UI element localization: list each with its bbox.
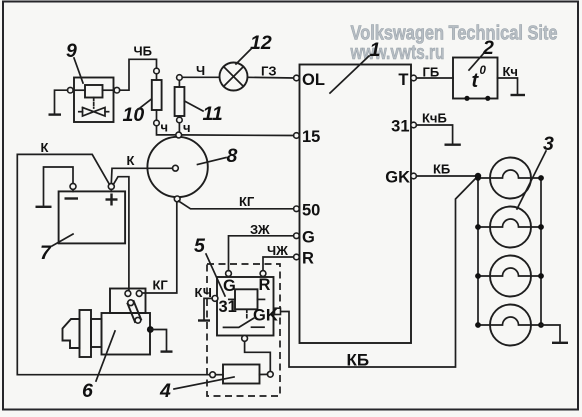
pin 50 — [294, 206, 300, 212]
starter neck — [91, 319, 102, 347]
svg-text:11: 11 — [203, 103, 223, 125]
svg-text:4: 4 — [159, 380, 171, 402]
relay terminal G — [226, 271, 232, 277]
ground (component 9) — [49, 113, 62, 115]
svg-text:5: 5 — [194, 235, 206, 257]
wire ZJ relay G to pin G — [229, 236, 294, 271]
svg-text:ГБ: ГБ — [423, 65, 440, 80]
svg-text:КГ: КГ — [239, 194, 255, 209]
wire relay bottom to resistor — [245, 341, 271, 371]
leader for 10 — [136, 99, 152, 111]
svg-text:КГ: КГ — [153, 278, 169, 293]
wire minus to ground — [44, 167, 74, 205]
wire ChJ relay R to pin R — [263, 257, 294, 271]
wire ChB 9 to fuse 10 — [120, 59, 157, 90]
svg-text:К: К — [41, 140, 49, 155]
dropping resistor 4 — [223, 365, 260, 384]
pin OL — [294, 75, 300, 81]
svg-text:Ч: Ч — [196, 63, 205, 78]
pin 31 — [411, 122, 417, 128]
glow plug P3 — [475, 256, 544, 297]
starter pinion — [63, 319, 80, 348]
minus terminal — [70, 183, 76, 189]
glow plug rail right — [540, 178, 542, 325]
control unit U1 — [300, 65, 412, 344]
svg-text:GK: GK — [253, 307, 278, 325]
svg-text:ч: ч — [183, 120, 191, 135]
ground (pin 31) — [445, 143, 461, 145]
wire fuse11 bottom to node — [178, 123, 180, 132]
leader for 11 — [185, 101, 204, 111]
pin T — [411, 75, 417, 81]
wire node to pin 15 — [179, 134, 294, 137]
battery 7 — [59, 191, 126, 243]
svg-text:ч: ч — [161, 120, 169, 135]
wire Ch fuse11 to lamp — [182, 76, 220, 78]
temperature sensor 2 — [453, 58, 498, 99]
relay bottom terminal — [242, 336, 248, 342]
wire plugs to ground — [541, 325, 560, 341]
wire KB junction down to bottom run — [281, 176, 479, 367]
relay coil — [235, 289, 258, 309]
fuse 10 — [152, 80, 162, 110]
inner rect of 9 — [85, 85, 103, 98]
svg-text:ГЗ: ГЗ — [261, 64, 277, 79]
wire KCh relay 31 to ground — [204, 298, 212, 319]
svg-text:КБ: КБ — [347, 351, 370, 370]
leader for 9 — [74, 58, 83, 83]
leader for 5 — [206, 254, 225, 296]
solenoid terminal left — [125, 291, 131, 297]
wire KB from pin GK to glow plug rail — [416, 175, 478, 177]
relay terminal R — [260, 271, 266, 277]
svg-text:ЧЖ: ЧЖ — [267, 243, 288, 258]
relay terminal 31 — [212, 296, 218, 302]
svg-text:КБ: КБ — [433, 162, 450, 177]
svg-text:G: G — [223, 277, 236, 295]
starter ground node — [147, 326, 154, 333]
lamp 12 — [220, 63, 248, 91]
svg-text:6: 6 — [82, 380, 93, 402]
wire K plus to switch 8 — [111, 168, 172, 183]
ground (glow plugs) — [552, 342, 568, 344]
svg-text:T: T — [398, 71, 408, 89]
relay unit 5 dashed enclosure — [207, 264, 280, 396]
ground (relay) — [198, 319, 210, 321]
plus terminal — [108, 183, 114, 189]
terminal right of 9 — [114, 87, 120, 93]
svg-text:R: R — [259, 276, 271, 294]
ignition switch 8 — [147, 137, 207, 197]
glow plug rail left — [477, 176, 479, 325]
inner wires of 9 — [74, 89, 85, 91]
svg-text:1: 1 — [370, 39, 381, 61]
pin GK — [411, 173, 417, 179]
relay box 5 — [217, 277, 274, 336]
sensor bottom pin dots — [464, 96, 469, 101]
wire 8 down to starter solenoid — [142, 202, 177, 293]
plus sign — [106, 198, 118, 200]
node top terminal of 8 — [176, 132, 182, 138]
svg-text:ЧБ: ЧБ — [134, 44, 152, 59]
svg-text:R: R — [302, 250, 314, 268]
pin 15 — [294, 133, 300, 139]
fuse 11 — [175, 87, 185, 116]
svg-text:OL: OL — [302, 71, 325, 89]
wire Kch from sensor to ground — [498, 78, 518, 94]
relay switch contact — [224, 318, 254, 327]
valve stem of 9 — [93, 98, 95, 109]
wire plus to starter solenoid — [113, 177, 129, 291]
wire KchB from pin 31 to ground — [416, 125, 452, 143]
leader for 12 — [236, 49, 251, 64]
svg-text:0: 0 — [480, 65, 487, 77]
leader for 2 — [469, 53, 484, 70]
glow plug P2 — [475, 207, 544, 248]
leader for 7 — [52, 234, 73, 246]
minus sign — [65, 197, 79, 199]
svg-text:15: 15 — [302, 128, 320, 146]
starter flange — [80, 310, 92, 357]
svg-text:GK: GK — [385, 169, 410, 187]
leader for 3 — [517, 151, 546, 209]
svg-text:7: 7 — [40, 242, 52, 264]
terminal left of 9 — [68, 87, 74, 93]
ground (battery) — [36, 206, 52, 208]
svg-text:t: t — [472, 70, 480, 92]
svg-text:К: К — [127, 153, 135, 168]
wire GZ lamp to OL — [248, 76, 294, 79]
svg-text:31: 31 — [391, 118, 409, 136]
svg-text:Кч: Кч — [503, 64, 518, 79]
pin R — [294, 254, 300, 260]
wire fuse10 bottom to node — [157, 126, 177, 135]
svg-text:12: 12 — [250, 32, 272, 54]
starter body — [102, 313, 151, 355]
relay terminal GK (square) — [275, 308, 281, 314]
svg-text:3: 3 — [543, 133, 554, 155]
glow plug P1 — [475, 158, 544, 199]
svg-text:8: 8 — [227, 145, 238, 167]
center terminal of 8 — [173, 165, 179, 171]
node KB junction — [475, 173, 481, 179]
pin G — [294, 233, 300, 239]
wire K plus to left frame down to resistor 4 — [17, 154, 210, 374]
solenoid terminal right — [136, 291, 142, 297]
solenoid plunger — [127, 300, 141, 323]
wire 9 to ground — [55, 90, 68, 113]
svg-text:G: G — [302, 229, 315, 247]
leader for 4 — [174, 377, 234, 389]
solenoid box — [110, 289, 146, 314]
leader for 1 — [330, 56, 369, 93]
bottom terminal of 8 — [174, 196, 180, 202]
glow relay 9 — [74, 78, 114, 123]
wire KG 8 to pin 50 — [179, 201, 294, 209]
svg-text:ЗЖ: ЗЖ — [250, 222, 270, 237]
leader for 6 — [96, 331, 115, 381]
glow plug P4 — [475, 305, 544, 346]
watermark — [350, 23, 558, 65]
ground (starter) — [161, 350, 173, 352]
ground (sensor) — [511, 94, 526, 96]
svg-text:КЧ: КЧ — [195, 285, 212, 300]
svg-text:КчБ: КчБ — [422, 111, 447, 126]
svg-text:9: 9 — [66, 40, 77, 62]
wire GB from T to sensor — [416, 77, 453, 79]
wire starter to ground — [150, 330, 166, 351]
svg-text:50: 50 — [302, 202, 320, 220]
valve symbol of 9 — [83, 108, 106, 117]
svg-text:2: 2 — [482, 37, 494, 59]
leader for 8 — [198, 158, 227, 165]
